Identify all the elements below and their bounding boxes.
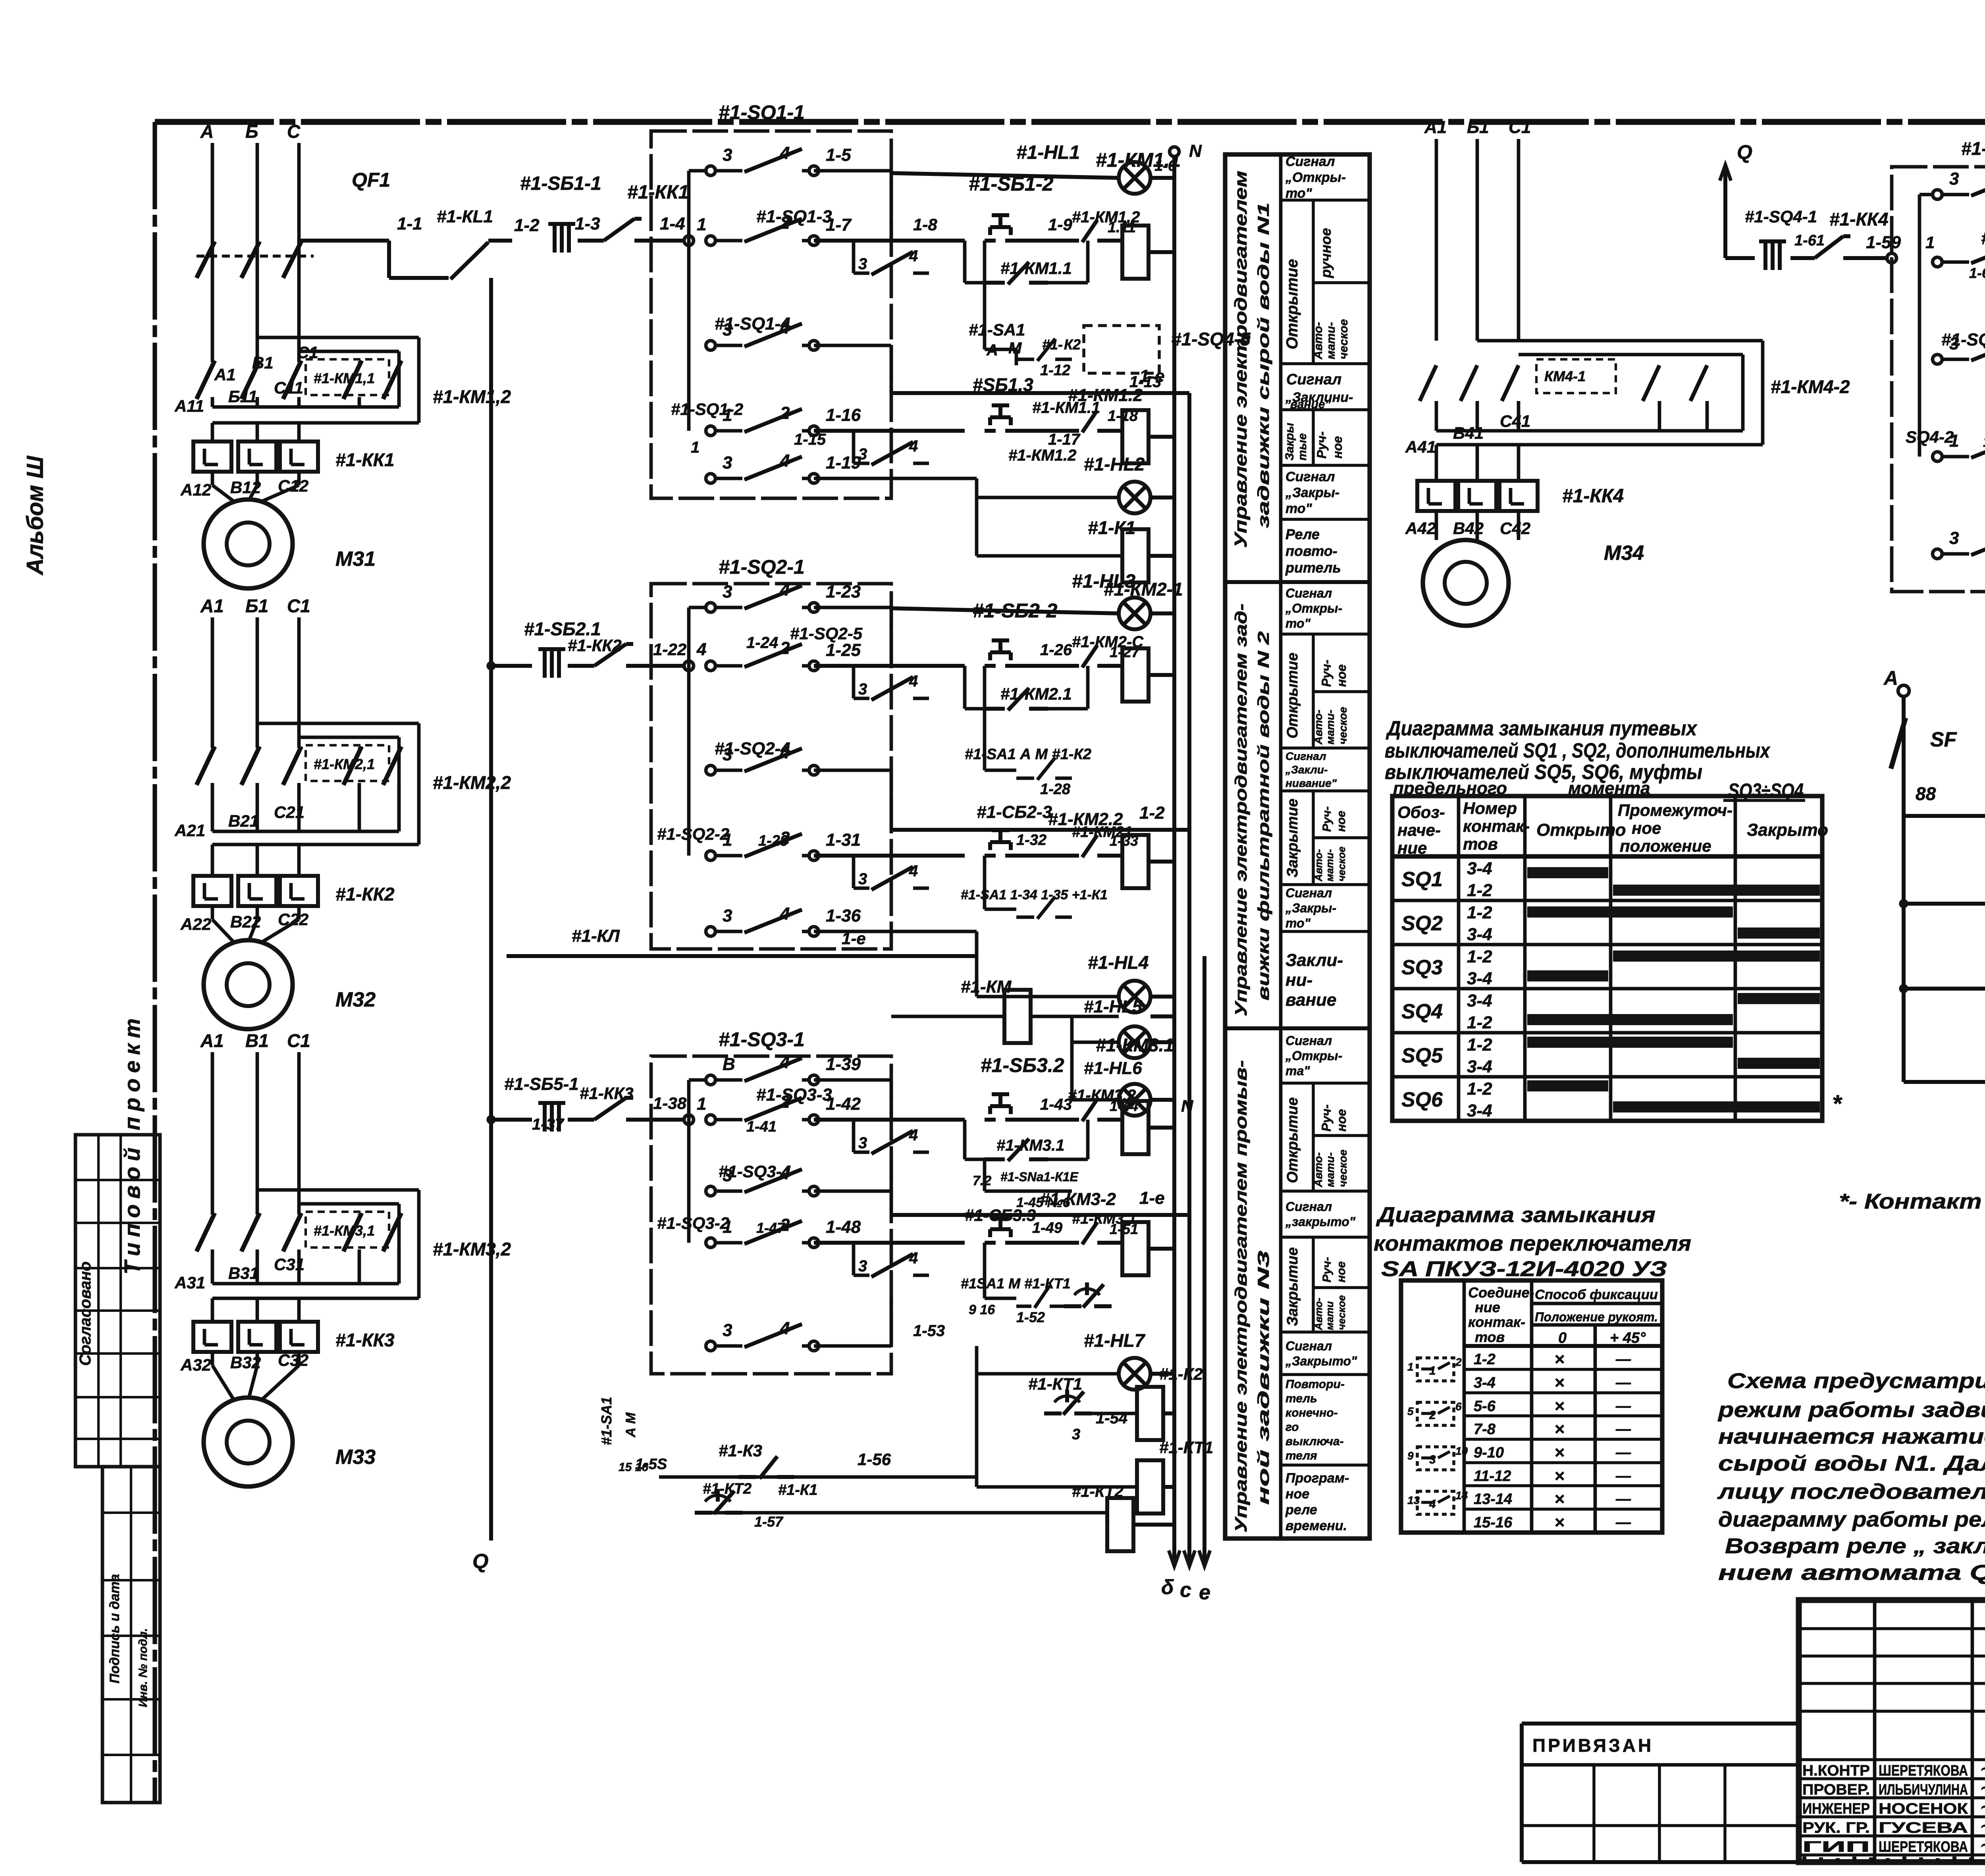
svg-text:1-57: 1-57 xyxy=(754,1514,784,1530)
svg-text:#1-SA1: #1-SA1 xyxy=(969,320,1025,339)
svg-text:ческое: ческое xyxy=(1337,319,1350,359)
svg-text:#1-КМ1.2: #1-КМ1.2 xyxy=(1068,386,1143,405)
svg-text:мати-: мати- xyxy=(1324,849,1336,881)
svg-text:3-4: 3-4 xyxy=(1467,859,1492,878)
svg-text:10: 10 xyxy=(1455,1445,1468,1457)
svg-text:3-4: 3-4 xyxy=(1467,1057,1492,1076)
svg-text:#1-КМ3.1: #1-КМ3.1 xyxy=(996,1137,1064,1154)
svg-text:С32: С32 xyxy=(278,1351,308,1369)
svg-text:ческое: ческое xyxy=(1336,846,1347,881)
svg-text:А42: А42 xyxy=(1405,519,1436,538)
svg-text:#1-HL4: #1-HL4 xyxy=(1088,952,1149,973)
svg-text:4: 4 xyxy=(780,743,790,762)
svg-text:Способ фиксации: Способ фиксации xyxy=(1535,1287,1658,1302)
svg-text:контак-: контак- xyxy=(1463,817,1530,835)
svg-text:ное: ное xyxy=(1335,1261,1348,1282)
svg-text:выключателей SQ1 , SQ2, дополн: выключателей SQ1 , SQ2, дополнительных xyxy=(1385,739,1771,762)
svg-text:Б1: Б1 xyxy=(1467,118,1489,137)
svg-text:4: 4 xyxy=(780,143,790,163)
svg-text:Типовой проект: Типовой проект xyxy=(119,1013,145,1274)
svg-text:Закры: Закры xyxy=(1283,423,1296,461)
svg-text:#1-КМ1.2: #1-КМ1.2 xyxy=(1008,447,1076,464)
svg-text:„Закли-: „Закли- xyxy=(1285,764,1328,776)
svg-text:#1-КТ1: #1-КТ1 xyxy=(1028,1375,1082,1393)
svg-text:1: 1 xyxy=(697,215,706,234)
svg-text:1-е: 1-е xyxy=(842,929,866,948)
svg-text:1-1: 1-1 xyxy=(397,214,422,233)
svg-text:×: × xyxy=(1554,1419,1565,1439)
svg-text:лицу последовательности ра: лицу последовательности работы задвижек … xyxy=(1717,1480,1985,1504)
svg-text:3: 3 xyxy=(723,1321,732,1340)
svg-text:времени.: времени. xyxy=(1285,1518,1347,1533)
svg-text:—: — xyxy=(1615,1351,1631,1368)
svg-text:×: × xyxy=(1554,1396,1565,1416)
svg-text:3: 3 xyxy=(723,906,732,925)
svg-text:1-2: 1-2 xyxy=(514,216,540,235)
svg-text:1: 1 xyxy=(1429,1364,1436,1377)
svg-text:ПРОВЕР.: ПРОВЕР. xyxy=(1802,1782,1870,1798)
svg-text:1-61: 1-61 xyxy=(1794,232,1825,249)
svg-text:Руч-: Руч- xyxy=(1319,660,1334,687)
svg-text:δ: δ xyxy=(1161,1576,1174,1599)
svg-text:Номер: Номер xyxy=(1463,799,1517,817)
svg-text:В1: В1 xyxy=(245,1030,269,1051)
svg-text:#1-HL7: #1-HL7 xyxy=(1084,1330,1146,1351)
svg-text:#1-SQ2-5: #1-SQ2-5 xyxy=(790,624,863,643)
svg-text:1-41: 1-41 xyxy=(746,1118,777,1135)
svg-text:А31: А31 xyxy=(174,1273,205,1292)
svg-text:Авто-: Авто- xyxy=(1312,1152,1324,1188)
svg-text:Авто-: Авто- xyxy=(1312,710,1324,745)
svg-text:13: 13 xyxy=(1407,1494,1420,1506)
svg-text:#1-SA1 А М #1-К2: #1-SA1 А М #1-К2 xyxy=(965,746,1091,763)
svg-text:реле: реле xyxy=(1285,1502,1317,1517)
svg-text:#1-КМ3.1: #1-КМ3.1 xyxy=(1096,1035,1174,1055)
svg-text:11-12: 11-12 xyxy=(1474,1468,1511,1485)
svg-text:ИНЖЕНЕР: ИНЖЕНЕР xyxy=(1802,1801,1870,1817)
svg-text:1-15: 1-15 xyxy=(794,431,826,448)
svg-text:Сигнал: Сигнал xyxy=(1285,1033,1332,1048)
svg-text:∼∼: ∼∼ xyxy=(1979,1760,1985,1778)
svg-text:#1-SQ4-1: #1-SQ4-1 xyxy=(1745,207,1817,226)
svg-text:М33: М33 xyxy=(335,1446,376,1469)
svg-text:то": то" xyxy=(1285,501,1312,516)
svg-text:1-19: 1-19 xyxy=(826,453,861,472)
svg-text:13-14: 13-14 xyxy=(1474,1491,1512,1508)
svg-text:В22: В22 xyxy=(230,912,261,931)
svg-text:#1-SQ2-1: #1-SQ2-1 xyxy=(719,556,805,578)
svg-text:#1SA1 М #1-КТ1: #1SA1 М #1-КТ1 xyxy=(961,1275,1071,1292)
svg-text:#1-SQ1-2: #1-SQ1-2 xyxy=(671,400,743,419)
svg-text:ШЕРЕТЯКОВА: ШЕРЕТЯКОВА xyxy=(1879,1762,1968,1779)
svg-text:теля: теля xyxy=(1285,1449,1317,1462)
svg-text:сырой воды N1. Дальнейшую: сырой воды N1. Дальнейшую работу задвиже… xyxy=(1718,1452,1985,1475)
svg-text:1-5: 1-5 xyxy=(826,145,851,165)
svg-text:3: 3 xyxy=(858,255,867,273)
svg-text:#1-К1: #1-К1 xyxy=(778,1482,817,1498)
svg-text:4: 4 xyxy=(909,1126,918,1144)
svg-text:С: С xyxy=(287,121,301,142)
svg-text:Открытие: Открытие xyxy=(1284,259,1301,349)
svg-text:3-4: 3-4 xyxy=(1467,969,1492,988)
svg-text:1-25: 1-25 xyxy=(826,640,861,660)
svg-text:1-29: 1-29 xyxy=(758,833,788,849)
svg-text:#1-HL5: #1-HL5 xyxy=(1084,997,1142,1016)
svg-text:Инв. № подл.: Инв. № подл. xyxy=(137,1628,150,1707)
svg-text:1-22: 1-22 xyxy=(653,640,686,659)
svg-text:1-63 1: 1-63 1 xyxy=(1969,265,1985,281)
svg-text:#1-КТ2: #1-КТ2 xyxy=(703,1481,752,1497)
svg-text:Б1: Б1 xyxy=(245,596,268,616)
svg-text:#1-SA1 1-34 1-35 +1-К1: #1-SA1 1-34 1-35 +1-К1 xyxy=(961,887,1108,902)
svg-text:Управление электродвигателем п: Управление электродвигателем промыв- xyxy=(1231,1060,1250,1533)
svg-text:С11: С11 xyxy=(274,378,303,397)
svg-text:7-8: 7-8 xyxy=(1474,1421,1496,1438)
svg-text:выключа-: выключа- xyxy=(1285,1435,1344,1448)
svg-text:—: — xyxy=(1615,1491,1631,1508)
svg-text:ческое: ческое xyxy=(1336,1295,1347,1330)
svg-text:Возврат реле „ заклинивание ": Возврат реле „ заклинивание " осуществля… xyxy=(1725,1534,1985,1558)
svg-text:#1-SQ3-2: #1-SQ3-2 xyxy=(657,1214,729,1233)
svg-text:1-е: 1-е xyxy=(1139,366,1165,386)
svg-text:#1-SQ2-2: #1-SQ2-2 xyxy=(657,825,729,844)
svg-text:e: e xyxy=(1199,1581,1210,1604)
svg-text:#1-КМ2.2: #1-КМ2.2 xyxy=(1048,810,1123,829)
svg-text:×: × xyxy=(1554,1350,1565,1369)
svg-text:ритель: ритель xyxy=(1285,559,1341,576)
svg-text:ШЕРЕТЯКОВА: ШЕРЕТЯКОВА xyxy=(1879,1839,1968,1855)
svg-text:1-2: 1-2 xyxy=(1467,1013,1492,1032)
svg-text:С42: С42 xyxy=(1500,519,1530,538)
svg-text:3: 3 xyxy=(1949,528,1959,548)
svg-text:#1-КЛ: #1-КЛ xyxy=(572,926,620,946)
svg-text:то": то" xyxy=(1285,916,1311,930)
svg-text:ГИП: ГИП xyxy=(1802,1839,1870,1855)
svg-text:3: 3 xyxy=(723,745,732,764)
svg-text:1-26: 1-26 xyxy=(1040,641,1072,659)
svg-text:14: 14 xyxy=(1455,1489,1468,1502)
svg-text:Открытие: Открытие xyxy=(1284,653,1301,738)
svg-text:3: 3 xyxy=(858,870,867,888)
svg-text:А1: А1 xyxy=(1424,118,1447,137)
svg-text:мати-: мати- xyxy=(1324,1152,1336,1187)
svg-text:А1: А1 xyxy=(200,596,224,616)
svg-text:ние: ние xyxy=(1475,1299,1500,1315)
svg-text:ное: ное xyxy=(1334,664,1349,687)
svg-text:#1-КК3: #1-КК3 xyxy=(335,1330,395,1350)
svg-text:SQ6: SQ6 xyxy=(1401,1088,1443,1111)
svg-text:КМ4-1: КМ4-1 xyxy=(1544,368,1586,384)
svg-text:88: 88 xyxy=(1916,783,1936,804)
svg-text:С1: С1 xyxy=(297,343,318,362)
svg-text:тов: тов xyxy=(1463,835,1498,853)
svg-text:А11: А11 xyxy=(174,397,204,415)
svg-text:В41: В41 xyxy=(1453,424,1484,442)
svg-text:ное: ное xyxy=(1330,436,1345,459)
svg-text:4: 4 xyxy=(696,640,706,659)
svg-text:#1-КМ2-1: #1-КМ2-1 xyxy=(1104,579,1183,600)
svg-text:#1-: #1- xyxy=(1042,336,1063,353)
svg-text:3: 3 xyxy=(723,1166,732,1185)
svg-text:ное: ное xyxy=(1334,1109,1349,1132)
svg-text:#1-КМ3,1: #1-КМ3,1 xyxy=(314,1222,375,1239)
svg-text:Сигнал: Сигнал xyxy=(1285,154,1335,169)
svg-text:#1-SNа1-К1Е: #1-SNа1-К1Е xyxy=(1000,1170,1079,1184)
svg-text:М34: М34 xyxy=(1604,542,1644,565)
svg-text:момента: момента xyxy=(1568,779,1650,798)
svg-text:1: 1 xyxy=(1925,233,1935,252)
svg-text:А21: А21 xyxy=(174,821,205,840)
svg-text:—: — xyxy=(1615,1398,1631,1415)
svg-text:Програм-: Програм- xyxy=(1285,1471,1349,1486)
svg-text:#1-HL2: #1-HL2 xyxy=(1084,454,1145,474)
svg-text:1-4: 1-4 xyxy=(660,214,685,233)
svg-text:Авто-: Авто- xyxy=(1312,849,1324,882)
svg-text:ное: ное xyxy=(1632,819,1661,837)
svg-text:#1-КМ2,2: #1-КМ2,2 xyxy=(433,772,511,793)
svg-text:3: 3 xyxy=(1429,1453,1436,1466)
svg-text:Сигнал: Сигнал xyxy=(1285,1199,1332,1214)
svg-text:2: 2 xyxy=(1429,1409,1436,1422)
svg-text:Руч-: Руч- xyxy=(1314,432,1329,459)
svg-text:1-12: 1-12 xyxy=(1040,362,1070,379)
svg-text:4: 4 xyxy=(909,862,918,880)
svg-text:#1-HL1: #1-HL1 xyxy=(1016,142,1080,163)
svg-text:Подпись и дата: Подпись и дата xyxy=(107,1574,122,1683)
svg-text:Закрыто: Закрыто xyxy=(1747,820,1828,840)
svg-text:1-16: 1-16 xyxy=(826,405,861,425)
svg-text:Открытие: Открытие xyxy=(1284,1097,1301,1183)
svg-text:1-31: 1-31 xyxy=(826,830,861,850)
svg-text:М32: М32 xyxy=(335,988,376,1011)
svg-text:#1-КК1: #1-КК1 xyxy=(335,449,395,470)
svg-text:„Откры-: „Откры- xyxy=(1285,170,1346,185)
svg-text:1-5S: 1-5S xyxy=(635,1456,667,1473)
svg-text:#1-СБ2-3: #1-СБ2-3 xyxy=(977,802,1052,822)
svg-text:1-е: 1-е xyxy=(1139,1188,1165,1208)
svg-text:#1-КМ: #1-КМ xyxy=(961,977,1012,997)
svg-text:4: 4 xyxy=(909,438,918,455)
svg-text:4: 4 xyxy=(909,673,918,690)
svg-text:А М: А М xyxy=(623,1412,638,1438)
svg-text:#1-СБ3.3: #1-СБ3.3 xyxy=(965,1206,1036,1224)
svg-text:нивание": нивание" xyxy=(1285,777,1337,789)
svg-text:Управление электродвигателем з: Управление электродвигателем зад- xyxy=(1231,603,1250,1016)
svg-text:#1-КК1: #1-КК1 xyxy=(627,182,689,203)
svg-text:×: × xyxy=(1554,1513,1565,1532)
svg-text:С1: С1 xyxy=(287,596,310,616)
svg-text:ГУСЕВА: ГУСЕВА xyxy=(1879,1820,1968,1836)
svg-text:0: 0 xyxy=(1558,1330,1567,1346)
svg-text:Б11: Б11 xyxy=(228,387,257,406)
svg-text:3: 3 xyxy=(858,1134,867,1152)
svg-text:Управление электродвигателем: Управление электродвигателем xyxy=(1231,171,1251,548)
svg-text:SQ5: SQ5 xyxy=(1401,1044,1443,1067)
svg-text:1-2: 1-2 xyxy=(1467,903,1492,922)
svg-text:—: — xyxy=(1615,1444,1631,1461)
svg-text:С31: С31 xyxy=(274,1255,304,1274)
svg-text:контактов переключателя: контактов переключателя xyxy=(1374,1232,1691,1255)
svg-text:Сигнал: Сигнал xyxy=(1285,586,1332,600)
svg-text:3-4: 3-4 xyxy=(1467,925,1492,944)
svg-text:*- Контакт не используется: *- Контакт не используется xyxy=(1839,1190,1985,1213)
svg-text:„Закрыто": „Закрыто" xyxy=(1285,1354,1357,1368)
svg-text:#1-SБ3.2: #1-SБ3.2 xyxy=(981,1054,1064,1076)
svg-text:В1: В1 xyxy=(252,353,274,372)
svg-text:„Закры-: „Закры- xyxy=(1285,485,1339,500)
svg-text:К2: К2 xyxy=(1064,336,1081,353)
svg-text:„Закры-: „Закры- xyxy=(1285,901,1336,915)
svg-text:тые: тые xyxy=(1296,433,1309,461)
svg-text:1-49: 1-49 xyxy=(1032,1220,1062,1236)
svg-text:„Откры-: „Откры- xyxy=(1285,1049,1342,1063)
svg-text:1-9: 1-9 xyxy=(1048,215,1072,234)
svg-text:SF: SF xyxy=(1930,728,1957,751)
svg-text:1-24: 1-24 xyxy=(746,634,778,652)
svg-text:1-43: 1-43 xyxy=(1040,1096,1072,1113)
svg-text:3-4: 3-4 xyxy=(1467,991,1492,1010)
svg-text:режим работы задвижек. Автом: режим работы задвижек. Автоматический ци… xyxy=(1717,1398,1985,1422)
svg-text:1-36: 1-36 xyxy=(826,906,861,925)
svg-text:С1: С1 xyxy=(1509,118,1531,137)
svg-text:SQ4: SQ4 xyxy=(1401,1000,1443,1023)
svg-text:—: — xyxy=(1615,1468,1631,1485)
svg-text:1-39: 1-39 xyxy=(826,1055,861,1074)
svg-text:вание: вание xyxy=(1285,990,1336,1010)
svg-text:Сигнал: Сигнал xyxy=(1286,371,1341,388)
svg-text:нием автомата QF.: нием автомата QF. xyxy=(1718,1561,1985,1585)
svg-text:Согласовано: Согласовано xyxy=(77,1261,94,1366)
svg-text:контак-: контак- xyxy=(1468,1314,1525,1330)
svg-text:SQ2: SQ2 xyxy=(1401,912,1443,935)
svg-text:c: c xyxy=(1180,1579,1191,1602)
svg-text:мати-: мати- xyxy=(1324,710,1336,744)
svg-text:SQ3: SQ3 xyxy=(1401,956,1443,979)
svg-text:4: 4 xyxy=(780,318,790,337)
svg-text:вание”: вание” xyxy=(1290,398,1331,411)
svg-text:А41: А41 xyxy=(1405,438,1436,456)
svg-text:ПРИВЯЗАН: ПРИВЯЗАН xyxy=(1532,1735,1654,1756)
svg-text:15-16: 15-16 xyxy=(1474,1514,1513,1531)
svg-text:1: 1 xyxy=(723,405,732,425)
svg-text:ной задвижки N3: ной задвижки N3 xyxy=(1255,1251,1272,1505)
svg-text:1-2: 1-2 xyxy=(1467,947,1492,966)
svg-text:3: 3 xyxy=(723,145,732,165)
svg-text:Диаграмма замыкания путевы: Диаграмма замыкания путевых xyxy=(1386,717,1698,740)
svg-text:#1-КТ2: #1-КТ2 xyxy=(1072,1483,1124,1500)
svg-text:#1-КМ3,2: #1-КМ3,2 xyxy=(433,1239,511,1259)
svg-text:1-8: 1-8 xyxy=(913,215,937,234)
svg-text:РУК. ГР.: РУК. ГР. xyxy=(1802,1820,1870,1836)
svg-text:1-47: 1-47 xyxy=(756,1220,786,1236)
svg-text:#1-SQ4-1: #1-SQ4-1 xyxy=(1961,138,1985,159)
svg-text:мати-: мати- xyxy=(1324,322,1337,359)
svg-text:Реле: Реле xyxy=(1285,526,1320,542)
svg-text:ческое: ческое xyxy=(1337,707,1349,744)
svg-text:4: 4 xyxy=(780,904,790,924)
svg-text:3: 3 xyxy=(1072,1426,1080,1443)
svg-text:Закрытие: Закрытие xyxy=(1284,798,1301,877)
svg-text:3: 3 xyxy=(1949,334,1959,353)
svg-text:то": то" xyxy=(1285,616,1311,630)
svg-text:5-6: 5-6 xyxy=(1474,1398,1496,1415)
svg-text:„закрыто": „закрыто" xyxy=(1285,1215,1356,1229)
svg-text:4: 4 xyxy=(909,1249,918,1267)
svg-text:#1-КТ1: #1-КТ1 xyxy=(1159,1438,1213,1457)
svg-text:3: 3 xyxy=(723,320,732,339)
svg-text:#1-SQ3-3: #1-SQ3-3 xyxy=(756,1085,832,1105)
svg-text:—: — xyxy=(1615,1514,1631,1531)
svg-text:1-56: 1-56 xyxy=(858,1450,891,1469)
svg-text:Б: Б xyxy=(245,121,258,142)
svg-text:Положение рукоят.: Положение рукоят. xyxy=(1535,1310,1658,1324)
svg-text:#1-SQ1-3: #1-SQ1-3 xyxy=(756,207,832,226)
svg-text:∼∼: ∼∼ xyxy=(1979,1817,1985,1835)
svg-text:1-3: 1-3 xyxy=(575,214,600,233)
svg-text:Закли-: Закли- xyxy=(1285,951,1343,970)
svg-text:1-37: 1-37 xyxy=(532,1116,565,1133)
svg-text:ное: ное xyxy=(1285,1487,1309,1502)
svg-text:4: 4 xyxy=(1429,1498,1436,1511)
svg-text:∼∼: ∼∼ xyxy=(1979,1836,1985,1854)
svg-text:А32: А32 xyxy=(180,1355,211,1374)
svg-text:1-48: 1-48 xyxy=(826,1217,861,1237)
svg-text:—: — xyxy=(1615,1375,1631,1391)
svg-text:1: 1 xyxy=(723,830,732,850)
svg-text:В: В xyxy=(723,1055,735,1074)
svg-text:N: N xyxy=(1181,1097,1194,1115)
svg-text:#1-КМ1,1: #1-КМ1,1 xyxy=(314,370,375,386)
svg-text:#1-КМ3-2: #1-КМ3-2 xyxy=(1040,1190,1116,1209)
svg-text:QF1: QF1 xyxy=(352,169,390,191)
svg-text:5: 5 xyxy=(1407,1405,1414,1417)
svg-text:А: А xyxy=(200,121,214,142)
svg-text:2: 2 xyxy=(780,638,790,658)
svg-text:С1: С1 xyxy=(287,1030,310,1051)
svg-text:Сигнал: Сигнал xyxy=(1285,750,1326,762)
svg-text:Сигнал: Сигнал xyxy=(1285,469,1335,484)
svg-text:С21: С21 xyxy=(274,803,304,821)
svg-text:В32: В32 xyxy=(230,1353,261,1372)
svg-text:Открыто: Открыто xyxy=(1536,820,1626,840)
svg-text:ное: ное xyxy=(1335,811,1348,832)
svg-text:2: 2 xyxy=(780,403,790,423)
svg-text:×: × xyxy=(1554,1489,1565,1509)
svg-text:#1-SА1: #1-SА1 xyxy=(598,1397,615,1445)
svg-text:ИЛЬБИЧУЛИНА: ИЛЬБИЧУЛИНА xyxy=(1879,1782,1968,1798)
svg-text:А1: А1 xyxy=(200,1030,224,1051)
svg-text:#1-КК4: #1-КК4 xyxy=(1829,209,1889,229)
svg-text:ние: ние xyxy=(1397,839,1427,857)
svg-text:А: А xyxy=(986,341,998,359)
svg-text:предельного: предельного xyxy=(1393,779,1507,798)
svg-text:4: 4 xyxy=(780,451,790,470)
svg-text:4: 4 xyxy=(909,247,918,265)
svg-text:1: 1 xyxy=(723,1217,732,1237)
svg-text:6: 6 xyxy=(1455,1400,1462,1413)
svg-text:1-52: 1-52 xyxy=(1016,1309,1045,1325)
svg-text:ни-: ни- xyxy=(1285,970,1312,990)
svg-text:1-2: 1-2 xyxy=(1467,1035,1492,1055)
svg-text:Схема предусматривает местны: Схема предусматривает местный и автомати… xyxy=(1727,1369,1985,1393)
svg-text:1-28: 1-28 xyxy=(1040,781,1071,798)
svg-text:#1-SБ1-1: #1-SБ1-1 xyxy=(520,173,601,194)
svg-text:Диаграмма замыкания: Диаграмма замыкания xyxy=(1376,1203,1655,1227)
svg-text:SQ4-2: SQ4-2 xyxy=(1906,428,1954,447)
svg-text:1: 1 xyxy=(691,439,700,456)
svg-text:1-2: 1-2 xyxy=(1474,1351,1495,1368)
svg-text:3: 3 xyxy=(1949,169,1959,189)
